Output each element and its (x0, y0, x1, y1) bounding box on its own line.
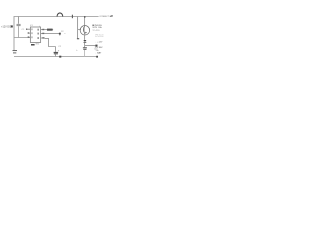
node A dot (59, 33, 61, 35)
svg-text:→ +14V: → +14V (94, 42, 103, 44)
node tick on rail (71, 15, 73, 19)
battery B1 plates (13, 50, 18, 52)
capacitor C1 leads (18, 17, 20, 24)
U1 ground tab (31, 44, 35, 46)
capacitor C2 plates (54, 51, 59, 53)
wire diode to node (84, 43, 86, 48)
transistor Q1 base bar (83, 27, 85, 31)
wire top supply rail (14, 16, 99, 18)
wire left input vertical (13, 17, 15, 51)
wire emitter to output terminal (85, 45, 96, 47)
wire emitter down (84, 35, 86, 40)
node ground terminal dot (96, 56, 98, 58)
resistor R1 body (47, 29, 53, 31)
U1 pin stubs left (26, 28, 30, 30)
svg-text:on heatsink: on heatsink (95, 35, 104, 38)
wire U1 pin to C2 (45, 38, 56, 46)
U1 pin stub top (39, 26, 41, 27)
svg-text:2Ah: 2Ah (96, 49, 99, 52)
transistor Q1 collector stroke (83, 26, 86, 29)
svg-text:TO-220: TO-220 (92, 30, 100, 32)
label U1 pin numbers right (37, 29, 39, 31)
wire R2 to ground rail (84, 50, 86, 57)
wire U1 to node A (45, 33, 60, 35)
op-amp U1 body (30, 27, 40, 43)
node input terminal dot (11, 25, 13, 27)
node collector rail dot (84, 16, 86, 17)
resistor R1 wire (45, 29, 53, 31)
wire collector from rail (84, 17, 86, 26)
wire input to IC pin (14, 37, 30, 39)
diode D1 (83, 40, 86, 42)
svg-text:NPN 10A: NPN 10A (93, 26, 103, 29)
resistor R2 bars (83, 47, 87, 49)
transistor Q1 emitter stroke (84, 31, 85, 35)
node output terminal dot (95, 45, 97, 47)
svg-text:+V: +V (109, 14, 113, 18)
wire base to Q1 (78, 28, 81, 30)
capacitor C1 plates (17, 23, 21, 25)
svg-text:+12V DC: +12V DC (1, 25, 11, 28)
wire base feed vertical (77, 17, 79, 39)
label U1 pin numbers left (31, 28, 32, 30)
wire hop on top rail (57, 13, 63, 17)
ground rail (14, 56, 97, 58)
svg-text:→ BAT: → BAT (94, 52, 102, 55)
node ground rail dot (59, 56, 61, 58)
svg-text:GND: GND (35, 43, 40, 45)
transistor Q1 circle (80, 26, 90, 36)
label Q1 line1 (93, 25, 94, 26)
node base feed tick (77, 38, 79, 39)
U1 pin stubs right (41, 29, 45, 31)
capacitor C2 leads (55, 47, 57, 52)
